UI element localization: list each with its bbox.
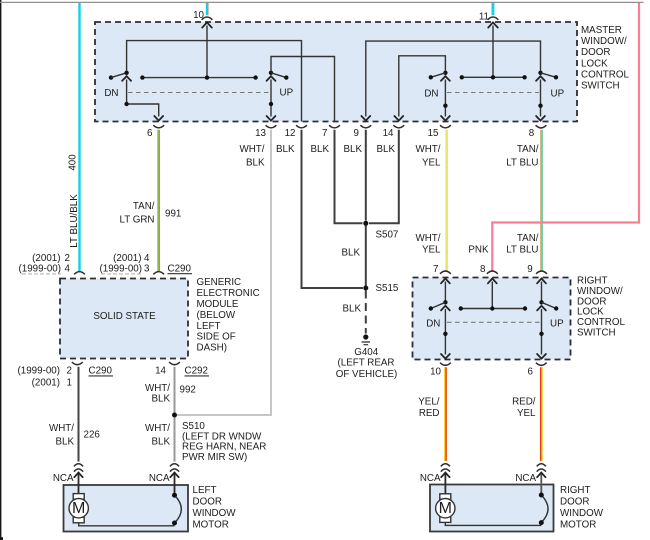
svg-text:S515: S515: [376, 283, 399, 294]
master switch box U1: [95, 22, 577, 122]
switch UP left-half: [267, 71, 289, 121]
right window switch box U2: [413, 278, 571, 360]
right motor commutator arc: [541, 495, 548, 523]
svg-text:WINDOW/: WINDOW/: [577, 286, 623, 297]
right-half inner feed (pin 14): [399, 56, 446, 117]
pin 10 arrow up: [202, 22, 212, 27]
svg-text:8: 8: [480, 264, 486, 275]
svg-text:8: 8: [529, 128, 535, 139]
node bus-right dots: [460, 75, 464, 79]
frame bottom-left mark: [0, 537, 3, 540]
left motor box M1: [64, 485, 189, 532]
svg-text:CONTROL: CONTROL: [581, 69, 629, 80]
svg-text:3: 3: [144, 263, 150, 274]
svg-text:ELECTRONIC: ELECTRONIC: [197, 288, 260, 299]
left-half UP feed line (pin 7): [271, 57, 335, 122]
wire PNK: [492, 3, 639, 271]
wire LT BLU/BLK 400: [78, 3, 80, 272]
svg-text:CONTROL: CONTROL: [577, 317, 625, 328]
right box bus: [461, 308, 525, 310]
svg-text:(LEFT REAR: (LEFT REAR: [338, 358, 395, 369]
svg-text:10: 10: [193, 10, 204, 21]
right-half feed line (pin 9): [366, 41, 541, 116]
pin 11 arrow up: [488, 22, 498, 27]
mech link dashed left: [128, 92, 269, 94]
svg-text:BLK: BLK: [343, 144, 362, 155]
mech link dashed right: [447, 92, 539, 94]
svg-text:14: 14: [155, 366, 166, 377]
svg-text:RED: RED: [419, 408, 440, 419]
svg-text:MOTOR: MOTOR: [193, 519, 229, 530]
svg-text:DN: DN: [426, 319, 440, 330]
connector NCA right motor pin A: [441, 464, 450, 472]
svg-text:UP: UP: [550, 319, 564, 330]
svg-text:992: 992: [180, 385, 196, 396]
wire YEL/RED: [444, 367, 446, 461]
svg-text:REG HARN, NEAR: REG HARN, NEAR: [182, 442, 266, 453]
svg-text:TAN/: TAN/: [517, 144, 539, 155]
wire pin 11 shaft: [492, 26, 494, 78]
svg-text:S507: S507: [376, 230, 399, 241]
svg-text:226: 226: [84, 430, 101, 441]
svg-text:(BELOW: (BELOW: [197, 310, 236, 321]
frame top border: [0, 1, 644, 3]
svg-text:LT BLU/BLK: LT BLU/BLK: [69, 194, 80, 248]
svg-text:TAN/: TAN/: [133, 201, 155, 212]
left motor bottom path: [79, 523, 175, 526]
svg-text:NCA: NCA: [149, 473, 170, 484]
svg-text:RIGHT: RIGHT: [577, 276, 607, 287]
svg-text:1: 1: [67, 377, 72, 388]
svg-text:NCA: NCA: [53, 473, 74, 484]
right motor bottom path: [445, 522, 541, 525]
splice S507: [363, 221, 368, 226]
svg-text:C290: C290: [89, 366, 113, 377]
svg-text:DOOR: DOOR: [193, 496, 222, 507]
wire WHT/BLK from master pin 13: [177, 130, 271, 415]
svg-text:WHT/: WHT/: [145, 423, 170, 434]
svg-text:14: 14: [383, 128, 394, 139]
svg-text:BLK: BLK: [310, 144, 329, 155]
svg-text:WHT/: WHT/: [415, 144, 440, 155]
wire WHT/YEL pin 15: [445, 130, 447, 271]
svg-text:7: 7: [433, 264, 438, 275]
svg-text:YEL/: YEL/: [418, 397, 440, 408]
svg-text:LEFT: LEFT: [193, 485, 217, 496]
pin 11 top connector: [488, 17, 499, 20]
svg-text:M: M: [439, 500, 452, 517]
svg-text:PNK: PNK: [468, 245, 489, 256]
right bus: [462, 76, 525, 78]
svg-text:LEFT: LEFT: [197, 321, 221, 332]
svg-text:(1999-00): (1999-00): [19, 263, 61, 274]
svg-text:6: 6: [147, 128, 153, 139]
right box bottom connectors: [440, 363, 451, 366]
svg-text:WHT/: WHT/: [415, 233, 440, 244]
wire LT BLU stub pin 10: [206, 3, 208, 15]
connector NCA left motor pin A: [74, 464, 83, 472]
svg-text:UP: UP: [551, 89, 565, 100]
svg-text:YEL: YEL: [422, 245, 441, 256]
svg-text:10: 10: [430, 367, 441, 378]
right box top connectors: [440, 271, 451, 274]
svg-text:MODULE: MODULE: [197, 299, 239, 310]
svg-text:DOOR: DOOR: [581, 47, 610, 58]
motor M2 right door: [436, 494, 455, 523]
svg-text:SWITCH: SWITCH: [581, 81, 620, 92]
node bus-left dots: [140, 75, 144, 79]
GEM top connector (green): [153, 272, 164, 275]
svg-text:GENERIC: GENERIC: [197, 277, 242, 288]
right motor box M2: [430, 485, 554, 532]
wire pin 10 shaft: [206, 26, 208, 78]
svg-text:7: 7: [322, 128, 327, 139]
svg-text:SWITCH: SWITCH: [577, 328, 616, 339]
frame left border: [0, 0, 2, 540]
pin 10 top connector: [202, 17, 213, 20]
mech link dashed right box: [447, 321, 540, 323]
svg-text:400: 400: [67, 154, 78, 171]
GEM bottom connectors: [72, 362, 83, 365]
ground G404: [362, 334, 370, 344]
wire BLK S507 to S515: [365, 226, 367, 289]
svg-text:S510: S510: [182, 421, 205, 432]
svg-text:BLK: BLK: [151, 437, 170, 448]
right box pin 8 entry: [491, 282, 493, 309]
master switch internals: left-half feed line (pin 12): [127, 41, 302, 122]
svg-text:RED/: RED/: [512, 397, 536, 408]
GEM module box U3: [60, 279, 188, 359]
svg-text:LOCK: LOCK: [577, 307, 604, 318]
svg-text:BLK: BLK: [276, 144, 295, 155]
svg-text:SIDE OF: SIDE OF: [197, 332, 236, 343]
svg-text:12: 12: [285, 128, 296, 139]
svg-text:NCA: NCA: [420, 473, 441, 484]
svg-text:DN: DN: [424, 89, 438, 100]
svg-text:15: 15: [428, 128, 439, 139]
svg-text:C290: C290: [168, 263, 192, 274]
wire BLK S515 to G404 (dashed): [365, 291, 367, 334]
wire TAN/LT BLU pin 8: [540, 130, 542, 271]
svg-text:LT GRN: LT GRN: [119, 215, 154, 226]
switch UP right box: [537, 300, 558, 359]
svg-text:OF VEHICLE): OF VEHICLE): [336, 369, 398, 380]
svg-text:(1999-00): (1999-00): [18, 365, 60, 376]
svg-text:4: 4: [65, 263, 71, 274]
svg-text:11: 11: [479, 12, 489, 23]
wire BLK pin 12 to S515: [302, 130, 364, 288]
svg-text:MOTOR: MOTOR: [560, 519, 596, 530]
svg-text:TAN/: TAN/: [517, 233, 539, 244]
svg-text:2: 2: [67, 365, 72, 376]
svg-text:DOOR: DOOR: [560, 496, 589, 507]
switch DN right-half: [429, 71, 450, 121]
wire WHT/BLK 992: [174, 367, 176, 462]
svg-text:M: M: [72, 500, 85, 517]
wire WHT/BLK 226: [78, 367, 80, 462]
svg-text:G404: G404: [354, 347, 379, 358]
GEM top connector (cyan): [74, 272, 85, 275]
left motor commutator arc: [175, 495, 182, 523]
svg-text:9: 9: [354, 128, 359, 139]
svg-text:WINDOW: WINDOW: [560, 508, 604, 519]
right box pin 7 entry: [444, 282, 446, 303]
wire into left motor B: [174, 472, 176, 495]
wire LT BLU stub pin 11: [492, 3, 494, 15]
wire into right motor B: [540, 472, 542, 495]
svg-text:LT BLU: LT BLU: [506, 245, 538, 256]
wire RED/YEL: [540, 367, 542, 461]
splice S515: [363, 286, 368, 291]
svg-text:BLK: BLK: [341, 248, 360, 259]
wire TAN/LT GRN 991: [157, 130, 159, 272]
svg-text:YEL: YEL: [422, 158, 441, 169]
svg-text:BLK: BLK: [151, 393, 170, 404]
splice S510: [172, 413, 177, 418]
svg-text:SOLID STATE: SOLID STATE: [93, 311, 156, 322]
switch UP right-half: [536, 71, 558, 121]
right box pin 9 entry: [541, 282, 543, 303]
left bus: [142, 77, 255, 79]
wire BLK pin 14 to S507: [369, 130, 399, 224]
svg-text:BLK: BLK: [246, 158, 265, 169]
wire into right motor A: [444, 472, 446, 494]
svg-text:DN: DN: [104, 88, 118, 99]
motor M1 left door: [69, 494, 88, 523]
svg-text:DOOR: DOOR: [577, 296, 606, 307]
connector NCA right motor pin B: [537, 464, 546, 472]
svg-text:RIGHT: RIGHT: [560, 485, 590, 496]
svg-text:PWR MIR SW): PWR MIR SW): [182, 452, 247, 463]
svg-text:BLK: BLK: [55, 437, 74, 448]
switch DN left-half: [109, 71, 163, 121]
wire BLK pin 9 to S507: [365, 130, 367, 221]
svg-text:UP: UP: [280, 88, 294, 99]
svg-text:NCA: NCA: [515, 473, 536, 484]
svg-text:MASTER: MASTER: [581, 25, 622, 36]
svg-text:13: 13: [255, 128, 266, 139]
connector NCA left motor pin B: [170, 464, 179, 472]
switch DN right box: [429, 300, 450, 359]
svg-text:YEL: YEL: [517, 408, 536, 419]
svg-text:WINDOW: WINDOW: [193, 508, 237, 519]
master bottom pin connectors: [153, 125, 164, 128]
svg-text:C292: C292: [185, 366, 208, 377]
svg-text:LOCK: LOCK: [581, 58, 608, 69]
wire BLK pin 7 to S507: [335, 130, 363, 224]
svg-text:9: 9: [527, 264, 532, 275]
svg-text:BLK: BLK: [376, 144, 395, 155]
svg-text:WHT/: WHT/: [239, 144, 264, 155]
wire into left motor A: [78, 472, 80, 494]
svg-text:(1999-00): (1999-00): [100, 263, 142, 274]
svg-text:991: 991: [165, 209, 181, 220]
svg-text:LT BLU: LT BLU: [506, 158, 538, 169]
svg-text:DASH): DASH): [197, 343, 227, 354]
svg-text:WINDOW/: WINDOW/: [581, 36, 627, 47]
svg-text:BLK: BLK: [342, 304, 361, 315]
svg-text:6: 6: [528, 367, 534, 378]
svg-text:WHT/: WHT/: [49, 423, 74, 434]
svg-text:(2001): (2001): [32, 377, 60, 388]
